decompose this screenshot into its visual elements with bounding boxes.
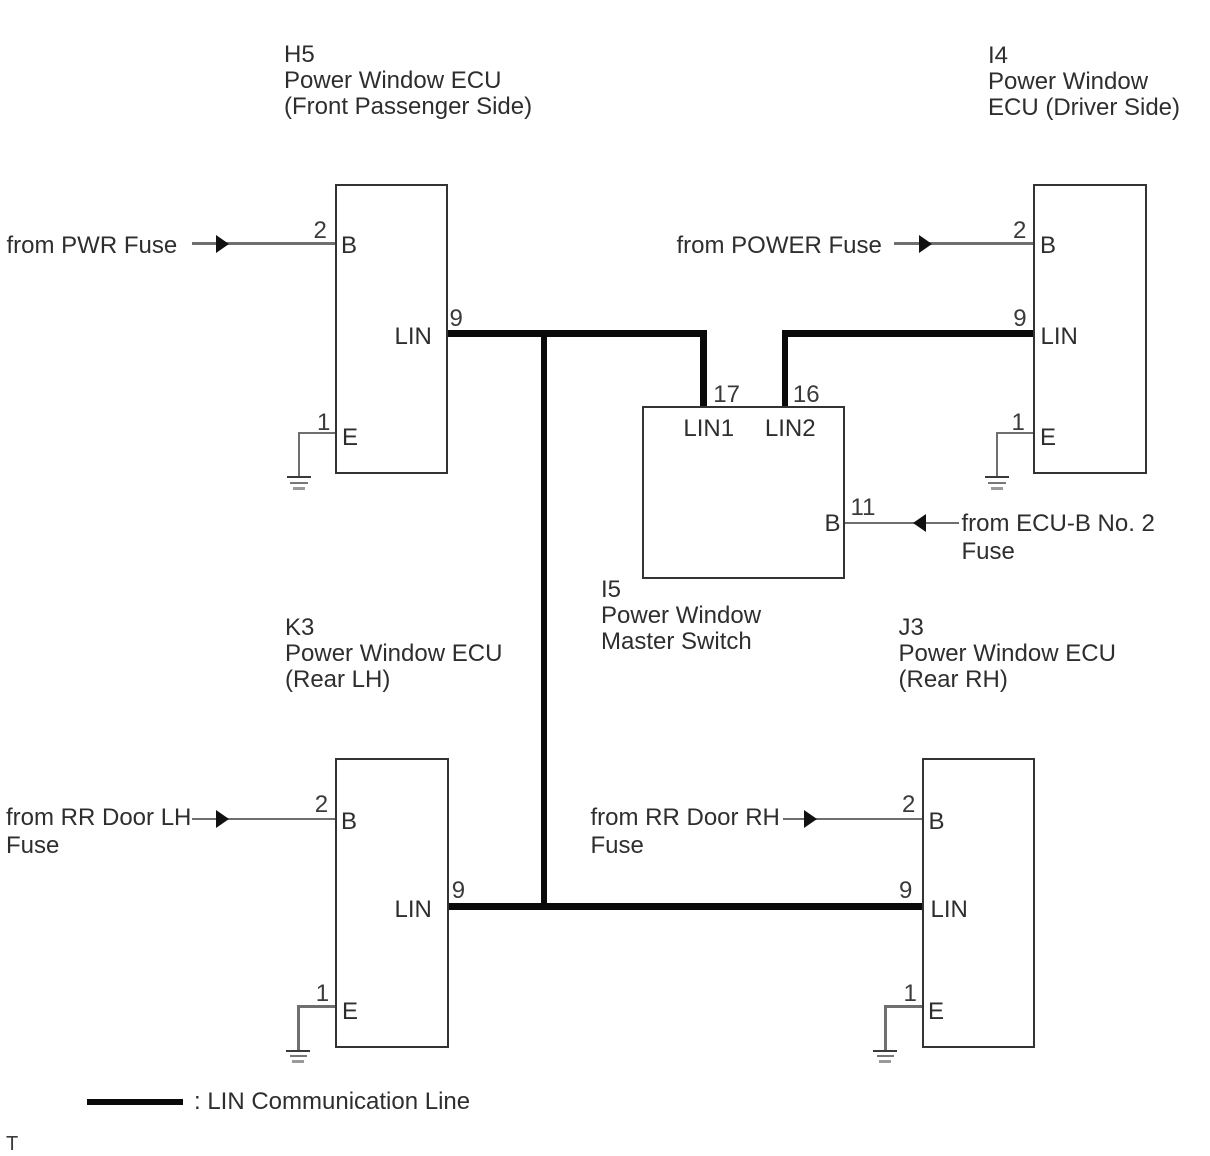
node from RR Door LH Fuse label [6, 804, 191, 860]
pin letter LIN J3 [931, 898, 968, 922]
pin number 2 I4 [1013, 219, 1026, 243]
pin letter B K3 [341, 810, 357, 834]
pin letter LIN H5 [395, 325, 432, 349]
ground J3 [873, 1050, 897, 1053]
pin letter E H5 [342, 426, 358, 450]
pin number 2 K3 [315, 793, 328, 817]
pin letter LIN1 I5 [683, 417, 734, 441]
wire J3 ground stem [884, 1005, 887, 1050]
pin letter B J3 [929, 810, 945, 834]
switch I5 label [601, 577, 761, 655]
ECU K3 label [285, 615, 502, 693]
pin number 1 J3 [904, 982, 917, 1006]
wire I4 pin1 E [996, 432, 1034, 435]
pin number 1 I4 [1012, 411, 1025, 435]
wire LIN2 to I4 (thick) [782, 330, 1034, 337]
pin number 9 K3 [452, 879, 465, 903]
wire H5 ground stem [298, 432, 301, 477]
wire LIN2 drop (thick) [782, 330, 789, 406]
arrow on J3 B wire [804, 810, 817, 828]
ground H5 [287, 476, 311, 479]
pin number 17 I5 [713, 383, 740, 407]
node from PWR Fuse label [7, 232, 178, 260]
arrow on H5 B wire [216, 235, 229, 253]
ECU I4 box [1033, 184, 1147, 474]
wire J3 pin2 B [783, 818, 922, 821]
pin number 9 I4 [1013, 307, 1026, 331]
wire K3 ground stem [297, 1005, 300, 1050]
ECU I4 label [988, 43, 1180, 121]
pin letter E J3 [928, 1000, 944, 1024]
wire I4 ground stem [996, 432, 999, 477]
switch I5 box [642, 406, 845, 579]
footer T [6, 1134, 18, 1154]
ECU H5 box [335, 184, 448, 474]
pin number 11 I5 [851, 496, 876, 520]
pin letter B I4 [1040, 234, 1056, 258]
ECU J3 box [922, 758, 1035, 1048]
wire I5 pin11 B [845, 522, 959, 525]
wire J3 pin1 E [884, 1005, 922, 1008]
arrow on K3 B wire [216, 810, 229, 828]
pin letter B I5 [825, 512, 841, 536]
pin number 9 J3 [899, 879, 912, 903]
wire LIN bus H5 to LIN1 (thick) [448, 330, 707, 337]
node from ECU-B No.2 Fuse label [962, 510, 1155, 566]
node from POWER Fuse label [677, 232, 882, 260]
wire LIN1 drop (thick) [700, 330, 707, 406]
pin letter B H5 [341, 234, 357, 258]
arrow on I5 B wire [913, 514, 926, 532]
wire I4 pin2 B [894, 242, 1033, 245]
wire LIN vertical bus (thick) [541, 330, 548, 910]
pin number 1 K3 [316, 982, 329, 1006]
wire H5 pin2 B [192, 242, 335, 245]
ground I4 [985, 476, 1009, 479]
pin letter E I4 [1040, 426, 1056, 450]
pin number 2 H5 [314, 219, 327, 243]
pin letter LIN K3 [395, 898, 432, 922]
wire K3 pin1 E [297, 1005, 335, 1008]
pin number 16 I5 [793, 383, 820, 407]
wire H5 pin1 E [298, 432, 335, 435]
pin number 9 H5 [450, 307, 463, 331]
wire LIN bottom bus (thick) [449, 903, 922, 910]
ECU J3 label [899, 615, 1116, 693]
ECU H5 label [284, 42, 532, 120]
pin number 2 J3 [902, 793, 915, 817]
legend text [194, 1090, 470, 1114]
ECU K3 box [335, 758, 449, 1048]
arrow on I4 B wire [919, 235, 932, 253]
ground K3 [286, 1050, 310, 1053]
wire K3 pin2 B [192, 818, 335, 821]
pin letter LIN2 I5 [765, 417, 816, 441]
pin number 1 H5 [317, 411, 330, 435]
pin letter E K3 [342, 1000, 358, 1024]
legend LIN line sample (thick) [87, 1099, 183, 1106]
pin letter LIN I4 [1041, 325, 1078, 349]
node from RR Door RH Fuse label [591, 804, 780, 860]
